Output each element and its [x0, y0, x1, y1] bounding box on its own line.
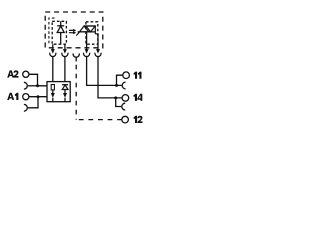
- bridge contact 14 jog: [116, 98, 122, 107]
- LED D1 lead bottom: [60, 33, 62, 45]
- plug arrow 2: [63, 49, 67, 54]
- input protection box: [47, 82, 70, 102]
- diode D2 triangle: [62, 85, 68, 90]
- LED D1 cathode bar: [57, 25, 64, 27]
- label A2: [7, 70, 18, 77]
- bridge contact A2: [24, 82, 27, 89]
- bridge contact A1 jog: [28, 97, 38, 108]
- triac output stub: [95, 34, 98, 36]
- plug arrow 3: [85, 49, 89, 54]
- stem of middle socket: [75, 57, 77, 62]
- diode D2 cathode bar: [62, 84, 68, 86]
- terminal 14 circle: [122, 95, 129, 102]
- socket cup 3: [84, 53, 90, 57]
- relay module outer dashed box: [45, 12, 103, 48]
- current arrow right branch: [63, 93, 67, 98]
- dashed NC path horizontal: [77, 119, 122, 121]
- wire A1: [29, 96, 47, 98]
- resistor R1: [51, 85, 54, 90]
- socket cup middle unused: [73, 53, 79, 57]
- optocoupler light arrows: [69, 29, 76, 35]
- socket cup 1: [50, 53, 56, 57]
- triac top rail: [84, 25, 95, 27]
- junction A1: [37, 95, 40, 98]
- socket cup 2: [62, 53, 68, 57]
- LED D1 lead top: [60, 21, 62, 26]
- bridge contact A1: [24, 104, 27, 111]
- label A1: [7, 93, 18, 100]
- wire plug4 down: [98, 56, 122, 98]
- diode D2 lead: [64, 90, 66, 94]
- bridge contact A2 stub: [28, 85, 38, 87]
- input side dashed frame bracket: [49, 18, 55, 44]
- label 12: [134, 116, 143, 123]
- bridge contact 14: [122, 103, 125, 110]
- dashed NC path vertical: [75, 65, 77, 120]
- pin from triac output: [97, 34, 99, 50]
- wire 11 jog: [117, 75, 123, 85]
- wire plug2 to input box: [64, 56, 66, 81]
- terminal 12 circle: [122, 116, 129, 123]
- terminal A1 circle: [23, 94, 29, 100]
- LED input dashed box: [52, 21, 66, 44]
- junction 11: [115, 84, 118, 87]
- plug arrow 1: [51, 49, 55, 54]
- triac down triangle: [86, 26, 95, 32]
- current arrow left branch: [51, 93, 55, 98]
- label 14: [133, 94, 142, 101]
- pin from LED box left: [52, 44, 54, 49]
- plug arrow 4: [96, 49, 100, 54]
- LED D1 triangle: [57, 26, 64, 32]
- junction A2: [36, 84, 39, 87]
- socket cup 4: [95, 53, 101, 57]
- triac gate: [76, 32, 79, 36]
- triac Q1: [76, 26, 98, 36]
- bridge contact 11: [122, 82, 125, 89]
- label 11: [134, 72, 142, 79]
- junction 14: [114, 96, 117, 99]
- bridge contact 11 stub: [117, 84, 122, 86]
- terminal A2 circle: [23, 71, 29, 77]
- resistor R1 lead: [52, 90, 54, 93]
- triac baseline: [78, 31, 96, 33]
- triac cathode bar: [94, 26, 96, 34]
- wire plug1 to input box: [52, 56, 54, 81]
- wire plug3 down: [87, 56, 117, 85]
- wire A2: [29, 74, 47, 86]
- triac up triangle: [80, 26, 89, 32]
- right branch lead to box bottom: [64, 98, 66, 102]
- pin from LED box right: [64, 44, 66, 49]
- triac output dashed box: [86, 22, 98, 44]
- left branch lead to box bottom: [52, 98, 54, 102]
- pin from triac baseline: [86, 32, 88, 50]
- terminal 11 circle: [123, 72, 130, 79]
